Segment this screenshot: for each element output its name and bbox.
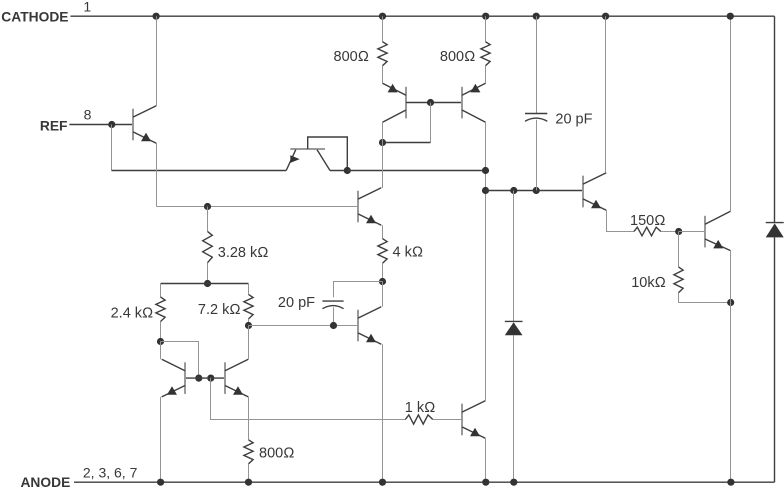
node bottom rail x160 (157, 479, 164, 486)
svg-text:20 pF: 20 pF (555, 111, 592, 127)
wire Q8 emitter down (485, 438, 487, 482)
wire Q9 emitter to 150 (607, 210, 634, 231)
transistor Q8 (462, 401, 485, 439)
resistor 4 k (378, 239, 387, 264)
wire 2.4k top lead (160, 284, 162, 298)
wire top rail to Q9 collector (605, 16, 607, 173)
wire REF node to Q2 emitter (112, 170, 287, 172)
node 7.2k bottom (245, 322, 252, 329)
svg-text:150Ω: 150Ω (630, 213, 665, 229)
wire mirror base link (185, 377, 225, 379)
wire 10k bottom to Q10 emitter (679, 293, 731, 303)
node x486 y170 (482, 167, 489, 174)
svg-text:CATHODE: CATHODE (1, 9, 68, 24)
wire right vertical bottom (774, 237, 776, 482)
wire x514 vertical lower (513, 335, 515, 482)
transistor Q10 output (705, 211, 731, 250)
node top rail x382 (379, 13, 386, 20)
wire PNP base down (430, 103, 432, 143)
wire 3.28k bottom lead (207, 263, 209, 284)
node 3.28k bottom (204, 280, 211, 287)
node bottom rail x514 (510, 479, 517, 486)
node top rail x730 (727, 13, 734, 20)
node 150/10k junction (675, 228, 682, 235)
node C2 bottom (330, 322, 337, 329)
wire 2.4k node to mirror bases (161, 342, 199, 379)
wire Q7 collector up (248, 326, 250, 360)
wire 4k node to C2 (334, 282, 383, 298)
capacitor C2 20 pF (322, 301, 343, 309)
diode D2 (766, 223, 784, 238)
wire Q10 collector up (730, 16, 732, 211)
wire 4k bottom lead (382, 263, 384, 281)
wire top rail to 800R (485, 16, 487, 42)
resistor 7.2 k (244, 294, 253, 319)
wire right vertical top (774, 16, 776, 222)
transistor Q7 mirror right (225, 359, 248, 397)
wire 800L bottom lead (382, 66, 384, 84)
resistor 1 k (405, 415, 433, 424)
node PNP base (427, 99, 434, 106)
wire PNP base to x382 (383, 142, 431, 144)
wire 150 to node (661, 231, 679, 233)
wire node to Q10 base (679, 231, 705, 233)
wire REF node down (111, 125, 113, 171)
node x382 y142 (379, 139, 386, 146)
wire Q7 emitter down (248, 397, 250, 440)
transistor Q3B top PNP right (462, 83, 486, 122)
svg-text:ANODE: ANODE (20, 475, 70, 488)
wire x486 vertical (485, 122, 487, 401)
wire 10k top lead (678, 232, 680, 267)
node x514 y190 (510, 187, 517, 194)
wire Q6 collector up (160, 342, 162, 360)
wire x382 vertical (382, 122, 384, 188)
node x536 y190 (533, 187, 540, 194)
transistor Q5 (358, 307, 381, 345)
wire anode bottom rail (74, 481, 775, 483)
node Q10 emitter y302 (727, 299, 734, 306)
node bottom rail x382 (379, 479, 386, 486)
wire Q1 emitter down (156, 143, 158, 206)
wire Q1 emitter to Q4 base (157, 206, 359, 208)
wire base run to Q5 (249, 325, 358, 327)
wire Q2 base loop (308, 137, 348, 171)
svg-text:10kΩ: 10kΩ (631, 275, 666, 291)
resistor 10 k (674, 267, 683, 293)
resistor 2.4 k (156, 297, 165, 322)
wire Q2 node to x486 (347, 170, 485, 172)
resistor 3.28 k (203, 231, 213, 262)
node REF junction (108, 121, 115, 128)
wire cathode top rail (70, 15, 774, 17)
node top rail x536 (533, 13, 540, 20)
node Q2 collector (344, 167, 351, 174)
transistor Q2 lateral PNP (286, 149, 330, 171)
node bottom rail x731 (727, 479, 734, 486)
wire C2 bottom lead (333, 307, 335, 325)
wire 1k to Q8 base (433, 419, 462, 421)
svg-text:20 pF: 20 pF (278, 295, 315, 311)
wire top rail to Q1 collector (156, 16, 158, 106)
transistor Q1 (133, 106, 156, 144)
svg-text:800Ω: 800Ω (440, 49, 475, 65)
svg-text:8: 8 (84, 107, 92, 123)
wire 3.28k top lead (207, 207, 209, 232)
transistor Q6 mirror left (162, 359, 185, 397)
svg-text:2, 3, 6, 7: 2, 3, 6, 7 (83, 465, 138, 481)
svg-text:4 kΩ: 4 kΩ (393, 245, 423, 261)
wire Q5 emitter down (382, 344, 384, 482)
wire Q10 emitter down (730, 251, 732, 483)
node bottom rail x248 (245, 479, 252, 486)
diode D1 (505, 321, 523, 335)
node x486 y190 (482, 187, 489, 194)
svg-text:2.4 kΩ: 2.4 kΩ (111, 305, 154, 321)
wire x514 vertical upper (513, 191, 515, 322)
wire y190 run to Q9 base (486, 190, 584, 192)
svg-text:REF: REF (40, 119, 68, 134)
wire C1 bottom lead (536, 120, 538, 191)
svg-text:7.2 kΩ: 7.2 kΩ (198, 302, 241, 318)
transistor Q3A top PNP left (383, 83, 407, 122)
wire REF lead to Q1 base (69, 124, 133, 126)
wire 7.2k bottom lead (248, 319, 250, 326)
node top rail x605 (602, 13, 609, 20)
svg-text:800Ω: 800Ω (259, 446, 294, 462)
wire 7.2k top lead (248, 284, 250, 295)
wire mirror base to 1k run (211, 378, 406, 419)
resistor 150 (634, 227, 661, 236)
transistor Q4 (358, 188, 381, 226)
wire 800R bottom lead (485, 66, 487, 84)
svg-text:800Ω: 800Ω (334, 49, 369, 65)
wire 2.4k bottom lead (160, 322, 162, 342)
wire 4k top lead (382, 225, 384, 238)
wire PNP base link (406, 102, 462, 104)
wire Q6 emitter down (160, 397, 162, 482)
node 2.4k bottom (157, 338, 164, 345)
node 4k bottom (379, 278, 386, 285)
svg-text:3.28 kΩ: 3.28 kΩ (218, 245, 269, 261)
wire Q2 collector stub (330, 170, 347, 172)
resistor 800 right (481, 42, 490, 66)
wire top rail to C1 (536, 16, 538, 113)
node 3.28k top (204, 203, 211, 210)
wire divider top run (161, 283, 249, 285)
transistor Q9 driver (583, 173, 606, 211)
wire top rail to 800L (382, 16, 384, 42)
capacitor C1 20 pF (525, 114, 547, 122)
svg-text:1: 1 (83, 0, 91, 14)
resistor 800 bottom (244, 440, 253, 464)
svg-text:1 kΩ: 1 kΩ (405, 400, 435, 416)
node mirror base right (207, 375, 214, 382)
node mirror base left (195, 375, 202, 382)
wire 800 bottom lead (248, 464, 250, 482)
resistor 800 left (378, 42, 387, 66)
node top rail x485 (482, 13, 489, 20)
node bottom rail x486 (482, 479, 489, 486)
node top rail x156 (153, 13, 160, 20)
wire Q5 collector up (382, 282, 384, 307)
